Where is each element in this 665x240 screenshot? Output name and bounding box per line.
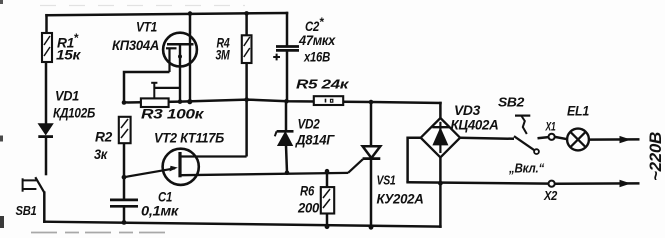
wire X2 to arrow <box>555 182 640 185</box>
svg-text:200: 200 <box>297 200 319 216</box>
svg-text:X2: X2 <box>543 189 557 203</box>
wire left rail upper <box>45 15 48 33</box>
resistor R6 <box>297 171 334 227</box>
svg-text:*: * <box>319 15 325 29</box>
capacitor C1 <box>110 189 180 223</box>
terminal X2 <box>543 181 557 203</box>
svg-text:R2: R2 <box>95 129 113 145</box>
svg-text:C2: C2 <box>305 18 319 34</box>
svg-text:47мкх: 47мкх <box>298 33 336 48</box>
capacitor C2 <box>273 13 336 101</box>
wire rail corner to bridge top <box>439 103 442 118</box>
wire bridge bottom to rail <box>439 157 442 226</box>
wire top rail <box>47 13 288 15</box>
wire X2 line <box>408 182 549 183</box>
svg-text:КП304А: КП304А <box>112 37 159 53</box>
wire lamp to arrow <box>589 138 640 141</box>
wire mid rail <box>124 100 441 103</box>
resistor R5 <box>296 78 349 106</box>
svg-text:„Вкл.“: „Вкл.“ <box>508 161 545 176</box>
transistor VT2 <box>124 130 348 185</box>
arrow line X1 <box>620 136 631 143</box>
svg-text:VS1: VS1 <box>377 174 396 188</box>
svg-text:0,1мк: 0,1мк <box>141 204 180 219</box>
wire SB1 to bottom rail <box>43 193 46 222</box>
wire VT2 b2 vertical <box>245 100 248 157</box>
svg-text:C1: C1 <box>158 189 172 205</box>
bridge rectifier VD3 <box>421 102 499 157</box>
svg-text:~220В: ~220В <box>646 132 665 181</box>
resistor R1 <box>42 31 81 63</box>
resistor R4 <box>216 13 252 99</box>
wire X1 to lamp <box>555 137 567 139</box>
svg-text:EL1: EL1 <box>567 103 589 119</box>
svg-text:3к: 3к <box>94 146 108 162</box>
wire bridge right to SB2 <box>460 138 514 139</box>
node junction dots <box>122 11 443 230</box>
lamp EL1 <box>567 103 589 151</box>
svg-text:VD2: VD2 <box>298 117 321 132</box>
wire R2 to C1 <box>123 143 126 199</box>
thyristor VS1 <box>348 102 424 227</box>
svg-text:VT2 КТ117Б: VT2 КТ117Б <box>154 130 224 146</box>
svg-text:R6: R6 <box>300 183 314 199</box>
transistor VT1 <box>112 20 197 102</box>
wire left rail lower <box>45 138 48 175</box>
svg-text:R5 24к: R5 24к <box>296 78 349 92</box>
wire VT1 gate to R2 node <box>124 72 170 103</box>
svg-text:X1: X1 <box>545 122 556 134</box>
resistor R2 <box>94 117 131 162</box>
svg-text:SB1: SB1 <box>16 203 37 218</box>
svg-text:R3 100к: R3 100к <box>141 107 205 122</box>
resistor R3 trimmer <box>141 83 205 122</box>
svg-text:КУ202А: КУ202А <box>377 192 424 207</box>
svg-text:КД102Б: КД102Б <box>53 105 95 121</box>
button SB2 <box>498 95 545 176</box>
scan edge smudges (decorative) <box>0 0 245 233</box>
wire SB2 to X1 <box>538 137 549 138</box>
svg-text:VT1: VT1 <box>136 20 157 35</box>
svg-text:3М: 3М <box>216 47 230 63</box>
svg-text:*: * <box>74 31 80 45</box>
wire bottom rail <box>44 222 440 227</box>
svg-text:КЦ402А: КЦ402А <box>451 117 499 133</box>
button SB1 <box>16 177 45 218</box>
wire bridge left to X2 line <box>408 138 421 183</box>
diode VD1 <box>38 89 95 137</box>
terminal X1 <box>545 122 556 140</box>
svg-text:VD1: VD1 <box>55 89 79 104</box>
svg-text:Д814Г: Д814Г <box>295 132 336 148</box>
wire VT1 drain vertical <box>189 14 192 34</box>
svg-text:х16В: х16В <box>303 50 330 65</box>
wire left rail middle <box>45 62 48 124</box>
zener VD2 <box>275 101 336 173</box>
svg-text:SB2: SB2 <box>498 95 525 110</box>
arrow line X2 <box>620 180 631 187</box>
svg-text:15к: 15к <box>56 47 81 63</box>
